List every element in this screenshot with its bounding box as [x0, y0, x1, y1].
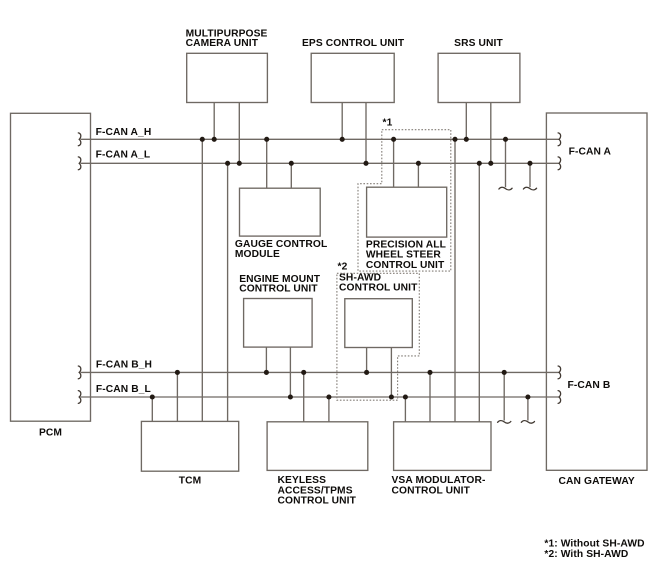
junction dot F-CAN A_L at x=239.3	[237, 161, 242, 166]
bus wire F-CAN B_H	[81, 371, 559, 373]
wire engine mount control unit to F-CAN B_H	[265, 347, 267, 372]
wire keyless access/TPMS unit to F-CAN B_H	[303, 372, 305, 421]
tilde (unterminated wire) symbol below F-CAN A_L stub	[523, 187, 536, 190]
wire camera unit to F-CAN A_H	[213, 103, 215, 140]
wire SRS unit to F-CAN A_L	[490, 103, 492, 164]
unit box SRS UNIT	[438, 53, 520, 102]
wire SH-AWD control unit to F-CAN B_L	[390, 348, 392, 398]
junction dot F-CAN B_L at x=405.4	[403, 394, 408, 399]
wire gauge control module to F-CAN A_L	[290, 163, 292, 188]
svg-text:MODULE: MODULE	[235, 249, 280, 260]
svg-text:*2: *2	[338, 262, 348, 273]
wire camera unit to F-CAN A_L	[238, 103, 240, 164]
svg-text:CONTROL UNIT: CONTROL UNIT	[339, 282, 418, 293]
svg-text:*2: With SH-AWD: *2: With SH-AWD	[544, 549, 628, 560]
wire SH-AWD control unit to F-CAN B_H	[366, 348, 368, 373]
junction dot F-CAN A_H at x=202.3	[200, 137, 205, 142]
junction dot F-CAN B_H at x=430.0	[427, 370, 432, 375]
junction dot stub on F-CAN A_H	[503, 137, 508, 142]
wire EPS control unit to F-CAN A_H	[341, 103, 343, 140]
junction dot F-CAN A_L at x=479.3	[477, 161, 482, 166]
svg-text:EPS CONTROL UNIT: EPS CONTROL UNIT	[302, 38, 405, 49]
twisted-pair symbol, gateway end of F-CAN B_L	[558, 391, 561, 404]
unit box VSA MODULATOR-CONTROL UNIT	[394, 422, 491, 471]
wire gauge control module to F-CAN A_H	[266, 139, 268, 188]
junction dot F-CAN A_H at x=266.7	[264, 137, 269, 142]
wire precision AWS unit to F-CAN A_H	[393, 139, 395, 187]
junction dot F-CAN A_L at x=366.0	[363, 161, 368, 166]
svg-text:WHEEL STEER: WHEEL STEER	[366, 250, 441, 261]
wire EPS control unit to F-CAN A_L	[365, 103, 367, 164]
unit box SH-AWD CONTROL UNIT	[345, 299, 413, 348]
wire VSA modulator to F-CAN B_L	[404, 397, 406, 422]
twisted-pair symbol, gateway end of F-CAN A_H	[558, 133, 561, 146]
junction dot F-CAN B_L at x=328.9	[326, 394, 331, 399]
junction dot F-CAN A_L at x=291.3	[289, 161, 294, 166]
junction dot F-CAN A_L at x=490.8	[488, 161, 493, 166]
junction dot F-CAN A_H at x=455.0	[452, 137, 457, 142]
svg-text:F-CAN B_L: F-CAN B_L	[96, 384, 151, 395]
unit box MULTIPURPOSE CAMERA UNIT	[187, 53, 268, 102]
twisted-pair symbol, PCM end of F-CAN A_L	[78, 157, 81, 170]
svg-text:CONTROL UNIT: CONTROL UNIT	[366, 260, 445, 271]
junction dot F-CAN A_L at x=227.6	[225, 161, 230, 166]
svg-text:CONTROL UNIT: CONTROL UNIT	[392, 486, 471, 497]
wire TCM to F-CAN A_L	[227, 163, 229, 421]
bus wire F-CAN B_L	[81, 396, 559, 398]
unit box ENGINE MOUNT CONTROL UNIT	[244, 299, 313, 348]
wire VSA modulator to F-CAN A_L	[478, 163, 480, 422]
svg-text:F-CAN B: F-CAN B	[568, 380, 611, 391]
svg-text:PCM: PCM	[39, 427, 62, 438]
twisted-pair symbol, gateway end of F-CAN A_L	[558, 157, 561, 170]
unit box TCM	[141, 421, 238, 471]
junction dot F-CAN B_H at x=303.7	[301, 370, 306, 375]
dashed option box *1 PRECISION ALL WHEEL STEER	[358, 130, 451, 271]
wire engine mount control unit to F-CAN B_L	[289, 347, 291, 397]
junction dot F-CAN B_H at x=366.6	[364, 370, 369, 375]
wire TCM to F-CAN B_H	[176, 372, 178, 421]
tilde (unterminated wire) symbol below F-CAN A_H stub	[499, 187, 512, 190]
svg-text:*1: *1	[383, 118, 393, 129]
junction dot F-CAN B_H at x=177.4	[175, 370, 180, 375]
twisted-pair symbol, gateway end of F-CAN B_H	[558, 366, 561, 379]
svg-text:F-CAN A_L: F-CAN A_L	[96, 149, 151, 160]
termination stub wire on F-CAN A_L	[529, 163, 531, 187]
unit box PRECISION ALL WHEEL STEER CONTROL UNIT	[367, 187, 447, 237]
svg-text:CONTROL UNIT: CONTROL UNIT	[278, 495, 357, 506]
unit box GAUGE CONTROL MODULE	[240, 188, 321, 236]
bus wire F-CAN A_L	[81, 162, 559, 164]
tilde (unterminated wire) symbol below F-CAN B_L stub	[521, 421, 534, 424]
bus wire F-CAN A_H	[81, 138, 559, 140]
twisted-pair symbol, PCM end of F-CAN A_H	[78, 133, 81, 146]
svg-text:F-CAN A_H: F-CAN A_H	[96, 127, 152, 138]
termination stub wire on F-CAN B_L	[527, 397, 529, 421]
junction dot F-CAN A_H at x=214.2	[212, 137, 217, 142]
unit box EPS CONTROL UNIT	[311, 53, 394, 102]
twisted-pair symbol, PCM end of F-CAN B_L	[78, 391, 81, 404]
termination stub wire on F-CAN A_H	[505, 139, 507, 187]
junction dot F-CAN B_L at x=290.4	[288, 394, 293, 399]
wire SRS unit to F-CAN A_H	[465, 103, 467, 140]
svg-text:*1: Without SH-AWD: *1: Without SH-AWD	[544, 538, 644, 549]
junction dot stub on F-CAN A_L	[527, 161, 532, 166]
junction dot F-CAN A_H at x=393.6	[391, 137, 396, 142]
dashed option box *2 SH-AWD	[337, 273, 419, 400]
svg-text:CAN GATEWAY: CAN GATEWAY	[559, 476, 635, 487]
unit box PCM	[11, 113, 91, 421]
svg-text:CONTROL UNIT: CONTROL UNIT	[239, 283, 318, 294]
junction dot F-CAN B_L at x=391.4	[389, 394, 394, 399]
svg-text:F-CAN A: F-CAN A	[569, 146, 612, 157]
junction dot F-CAN B_L at x=152.3	[150, 394, 155, 399]
junction dot F-CAN B_H at x=266.4	[264, 370, 269, 375]
wire VSA modulator to F-CAN A_H	[454, 139, 456, 422]
svg-text:F-CAN B_H: F-CAN B_H	[96, 359, 152, 370]
wire TCM to F-CAN B_L	[151, 397, 153, 421]
wire keyless access/TPMS unit to F-CAN B_L	[328, 397, 330, 422]
junction dot F-CAN A_H at x=466.3	[464, 137, 469, 142]
termination stub wire on F-CAN B_H	[503, 372, 505, 420]
junction dot F-CAN A_L at x=418.4	[416, 161, 421, 166]
wire precision AWS unit to F-CAN A_L	[417, 163, 419, 187]
svg-text:TCM: TCM	[179, 475, 202, 486]
tilde (unterminated wire) symbol below F-CAN B_H stub	[498, 421, 511, 424]
junction dot stub on F-CAN B_H	[502, 370, 507, 375]
svg-text:SRS UNIT: SRS UNIT	[454, 38, 503, 49]
junction dot F-CAN A_H at x=342.2	[340, 137, 345, 142]
wire TCM to F-CAN A_H	[201, 139, 203, 421]
twisted-pair symbol, PCM end of F-CAN B_H	[78, 366, 81, 379]
svg-text:CAMERA UNIT: CAMERA UNIT	[186, 38, 259, 49]
wire VSA modulator to F-CAN B_H	[429, 372, 431, 421]
unit box CAN GATEWAY	[546, 113, 647, 470]
junction dot stub on F-CAN B_L	[525, 394, 530, 399]
unit box KEYLESS ACCESS/TPMS CONTROL UNIT	[267, 422, 368, 471]
